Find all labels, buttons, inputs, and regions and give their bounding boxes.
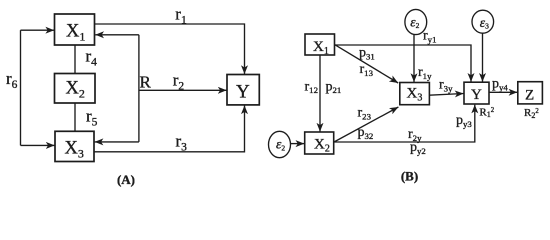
svg-text:r3y: r3y [439,77,453,93]
svg-text:r5: r5 [86,107,98,129]
svg-text:X2: X2 [66,79,85,101]
svg-text:p32: p32 [358,125,374,141]
svg-text:Y: Y [236,82,250,103]
svg-text:py4: py4 [492,76,508,92]
svg-text:ε3: ε3 [480,15,489,31]
svg-text:r12: r12 [305,80,318,96]
svg-text:(B): (B) [401,169,418,184]
svg-text:p21: p21 [326,80,342,96]
svg-text:X1: X1 [313,39,329,57]
svg-text:p31: p31 [359,46,375,62]
svg-text:ε2: ε2 [276,137,285,153]
svg-text:ε2: ε2 [410,14,419,30]
svg-text:r23: r23 [358,106,372,122]
svg-text:r3: r3 [176,131,188,153]
svg-text:R12: R12 [479,106,494,119]
svg-text:py3: py3 [456,113,472,129]
svg-text:X3: X3 [407,86,423,104]
svg-text:Z: Z [525,88,534,104]
svg-text:ry1: ry1 [423,29,436,45]
svg-text:r2: r2 [173,70,185,92]
svg-text:(A): (A) [117,172,135,187]
svg-text:X1: X1 [66,21,85,43]
svg-text:R: R [140,72,152,91]
svg-text:R22: R22 [524,107,539,120]
svg-text:Y: Y [471,87,482,103]
svg-text:r1y: r1y [418,65,432,81]
svg-text:X2: X2 [314,137,330,155]
svg-text:X3: X3 [65,138,84,160]
svg-text:r6: r6 [6,69,18,91]
svg-text:r4: r4 [86,47,98,69]
svg-text:r1: r1 [175,4,187,26]
